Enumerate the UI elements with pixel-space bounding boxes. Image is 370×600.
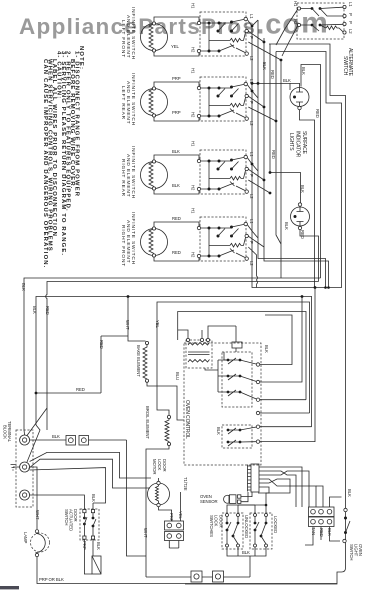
wire (157, 336, 169, 415)
junction (280, 59, 283, 62)
bus vertical C (264, 38, 329, 288)
svg-text:RED: RED (76, 387, 85, 392)
wire (180, 492, 182, 521)
svg-text:RED: RED (172, 216, 181, 221)
svg-text:PRP: PRP (172, 76, 181, 81)
wire T2 diagonal 2 (29, 459, 151, 488)
junction (251, 25, 254, 28)
surface indicator light 2 (291, 203, 319, 282)
svg-text:H1: H1 (191, 68, 196, 74)
connector square (79, 436, 89, 446)
terminal (186, 338, 189, 341)
svg-text:BLK: BLK (301, 67, 306, 75)
wire (158, 478, 160, 481)
wire (240, 427, 258, 430)
ring (20, 435, 30, 445)
wire (265, 505, 267, 513)
wire (255, 517, 266, 545)
svg-text:TAN: TAN (311, 527, 316, 535)
svg-text:BLK: BLK (283, 78, 291, 83)
wire (260, 288, 315, 442)
crossover wires (259, 467, 302, 507)
svg-text:YEL: YEL (155, 320, 160, 329)
terminal pad (238, 495, 241, 498)
svg-text:L2: L2 (249, 261, 254, 266)
wire (251, 492, 253, 497)
svg-text:LAMP: LAMP (23, 532, 28, 544)
svg-text:L1: L1 (249, 219, 254, 224)
junction (251, 90, 254, 93)
bus vertical D (270, 44, 301, 203)
alternate switch labels (293, 1, 353, 77)
svg-text:BLK: BLK (96, 542, 101, 550)
terminal (256, 411, 259, 414)
svg-text:RED: RED (45, 306, 50, 315)
infinite switch group 4 (right front) (141, 217, 249, 261)
infinite switch group 1 (left front) (141, 12, 249, 56)
junction (301, 295, 304, 298)
svg-text:P: P (249, 36, 254, 39)
junction (254, 522, 257, 525)
door lock motor winding (156, 483, 159, 505)
bottom-left dark mark (0, 586, 19, 589)
svg-text:P: P (249, 101, 254, 104)
wire (146, 576, 250, 578)
svg-text:MOTOR: MOTOR (152, 459, 157, 474)
svg-text:BLK: BLK (347, 489, 352, 497)
junction (127, 295, 130, 298)
wire (297, 207, 304, 226)
terminal (35, 530, 38, 533)
junction (251, 82, 254, 85)
svg-text:L2: L2 (348, 29, 353, 34)
terminal (256, 380, 259, 383)
wire (240, 441, 258, 443)
relay box lower (216, 425, 258, 448)
svg-text:H1: H1 (191, 141, 196, 147)
junction (227, 359, 230, 362)
wire (247, 225, 264, 288)
connector rows (165, 521, 184, 530)
terminal (343, 22, 346, 25)
junction (269, 171, 272, 174)
transformer core (188, 352, 210, 355)
bus vertical E (276, 52, 281, 245)
svg-text:RED: RED (271, 150, 276, 159)
svg-text:WHT: WHT (143, 528, 148, 538)
lamp (31, 533, 50, 552)
surface indicator light 1 (251, 65, 321, 288)
infinite switch group 2 (left rear) (141, 77, 249, 121)
wire (146, 446, 169, 577)
svg-text:L1: L1 (249, 14, 254, 19)
transformer secondary coil (188, 360, 210, 363)
junction (35, 392, 38, 395)
svg-text:P: P (249, 174, 254, 177)
svg-text:SURFACE: SURFACE (301, 131, 307, 155)
junction (227, 441, 230, 444)
svg-text:LEFT REAR: LEFT REAR (120, 86, 126, 120)
bake element (145, 341, 148, 344)
wire (260, 426, 312, 428)
wire T2 diagonal (30, 452, 151, 478)
terminal (343, 5, 346, 8)
pin labels for switch groups (191, 3, 255, 266)
svg-text:SENSOR: SENSOR (200, 499, 218, 504)
dashed box (222, 352, 252, 407)
wire (227, 479, 290, 513)
svg-text:L2: L2 (249, 121, 254, 126)
svg-text:H2: H2 (191, 47, 196, 53)
junction (314, 286, 317, 289)
svg-text:LOCKED: LOCKED (273, 516, 278, 533)
connector square (309, 507, 335, 517)
svg-text:PRP: PRP (82, 541, 87, 550)
staircase wires to buses (260, 315, 292, 365)
wire (346, 521, 351, 533)
junction (293, 96, 296, 99)
terminal (35, 553, 38, 556)
WHT drop (128, 297, 146, 342)
junction (227, 391, 230, 394)
broil element (167, 415, 170, 418)
wire (316, 486, 323, 507)
terminal (157, 503, 160, 506)
wire (84, 539, 93, 556)
terminal block (16, 430, 33, 507)
terminal (297, 23, 300, 26)
svg-text:LIGHTS: LIGHTS (288, 133, 294, 151)
connector square (191, 571, 202, 582)
wire (178, 326, 236, 338)
svg-text:PRP OR BLK: PRP OR BLK (39, 577, 64, 582)
wire (224, 326, 236, 360)
junction (257, 82, 260, 85)
svg-text:BLK: BLK (172, 183, 180, 188)
terminal pad (83, 536, 86, 539)
alternate switch resistor (326, 26, 343, 32)
svg-text:H1: H1 (191, 3, 196, 9)
bus vertical A (252, 26, 342, 288)
terminal (343, 539, 346, 542)
junction (275, 120, 278, 123)
terminal (200, 338, 203, 341)
connector square (165, 532, 184, 541)
ring (290, 88, 309, 107)
junction (311, 24, 314, 27)
svg-text:BLK: BLK (262, 62, 267, 70)
wire (320, 7, 343, 25)
svg-text:BLK: BLK (21, 283, 26, 291)
svg-text:BLK: BLK (91, 494, 96, 502)
svg-text:L1: L1 (348, 2, 353, 7)
bus vertical B (258, 20, 326, 288)
connector square (309, 517, 335, 527)
connector square (230, 495, 237, 504)
bottoms (227, 547, 266, 577)
diagonals from switch terminals to buses (247, 20, 281, 60)
trunk BLK 2 (36, 297, 312, 427)
wire (37, 557, 337, 584)
junction (227, 429, 230, 432)
oven light switch (344, 508, 347, 511)
wire (205, 368, 218, 370)
wire (228, 440, 240, 446)
junction (254, 529, 257, 532)
svg-text:RIGHT FRONT: RIGHT FRONT (120, 225, 126, 267)
svg-text:RED: RED (315, 109, 320, 118)
svg-text:SWITCH: SWITCH (64, 509, 69, 525)
terminal (343, 14, 346, 17)
svg-text:P: P (348, 13, 353, 16)
ring (167, 534, 172, 539)
svg-text:BLK: BLK (264, 345, 269, 353)
infinite switch group 3 (right rear) (141, 150, 249, 194)
wire (259, 471, 296, 507)
WHT to lamp (30, 467, 37, 529)
wire (252, 83, 300, 90)
P1 connector (251, 464, 259, 492)
svg-text:RED: RED (172, 250, 181, 255)
switch arms box2 (254, 514, 257, 517)
wire (259, 479, 316, 507)
dashed box (222, 513, 243, 549)
terminal (145, 379, 148, 382)
junction (226, 529, 229, 532)
control dashed box (184, 343, 261, 465)
ring (148, 483, 170, 505)
group labels (120, 7, 136, 267)
terminal (167, 442, 170, 445)
svg-text:WHT: WHT (35, 510, 40, 520)
svg-text:BLU: BLU (175, 372, 180, 380)
wire (228, 374, 240, 380)
svg-text:BLK: BLK (216, 427, 221, 435)
wire T3 to door switch (30, 495, 85, 509)
dashed box (250, 513, 272, 549)
dashed box (186, 340, 212, 368)
junction (344, 517, 347, 520)
svg-text:SWITCH: SWITCH (342, 56, 348, 76)
svg-text:P: P (348, 21, 353, 24)
svg-text:BLK: BLK (242, 550, 250, 555)
wire (247, 85, 276, 121)
wire (240, 376, 258, 382)
wire (241, 492, 252, 502)
trunk line 5 (178, 312, 306, 400)
wire (312, 9, 343, 32)
wire vertical drop (127, 440, 147, 556)
wire colour labels, horizontal (171, 44, 181, 255)
terminal (206, 338, 209, 341)
wire (169, 541, 179, 549)
bake element resistor zigzag (143, 345, 147, 379)
terminal (297, 7, 300, 10)
svg-text:T1/T2E: T1/T2E (183, 477, 188, 491)
ring (20, 462, 30, 472)
junction (251, 163, 254, 166)
wire (248, 466, 252, 490)
svg-text:H2: H2 (191, 252, 196, 258)
wire (300, 230, 319, 282)
junction (92, 517, 95, 520)
svg-text:P: P (249, 241, 254, 244)
bake bottom to BLU (147, 382, 184, 420)
svg-text:PRP: PRP (172, 110, 181, 115)
wire (330, 497, 342, 507)
wire (305, 527, 340, 546)
connector box below (92, 556, 101, 574)
switch arms box1 (226, 514, 229, 517)
junction (227, 375, 230, 378)
wire BLK rail to right (89, 439, 127, 441)
alternate switch box (276, 3, 346, 56)
ring (20, 490, 30, 500)
svg-text:WHT: WHT (125, 320, 130, 330)
RED branch (36, 336, 101, 393)
wire (247, 465, 249, 492)
trunk RED bus (46, 282, 319, 431)
svg-text:L2: L2 (249, 194, 254, 199)
diagonals to buses (24, 408, 47, 462)
terminal (254, 544, 257, 547)
wires from alt switch to buses (276, 10, 298, 57)
terminal (256, 425, 259, 428)
wire (238, 505, 255, 513)
svg-text:H1: H1 (293, 1, 298, 7)
svg-text:RED: RED (270, 70, 275, 79)
wire T2 rail 3 (30, 468, 106, 503)
BLK wire to fuses (30, 439, 66, 441)
wire (228, 428, 240, 434)
wire (228, 358, 240, 364)
svg-text:YEL: YEL (171, 44, 180, 49)
relay box upper (205, 352, 258, 407)
junction (327, 286, 330, 289)
svg-text:BLK: BLK (52, 434, 60, 439)
transformer (178, 326, 236, 368)
connector square (66, 436, 76, 446)
terminal pad (91, 536, 94, 539)
terminal pad (91, 510, 94, 513)
svg-text:OVEN CONTROL: OVEN CONTROL (184, 400, 190, 439)
door actuated switch (80, 509, 99, 540)
svg-text:BAKE ELEMENT: BAKE ELEMENT (136, 345, 141, 377)
junction (324, 286, 327, 289)
junction (344, 531, 347, 534)
ring (291, 207, 310, 226)
terminal (298, 203, 301, 206)
wire (260, 297, 302, 383)
ring (167, 523, 172, 528)
broil element resistor zigzag (165, 419, 169, 443)
terminal (226, 544, 229, 547)
junction (311, 7, 314, 10)
oven sensor bulb (224, 495, 229, 503)
wire (260, 412, 310, 414)
terminal (256, 398, 259, 401)
svg-text:RED: RED (319, 528, 324, 537)
connector square (213, 571, 224, 582)
lamp filament arc (36, 534, 46, 553)
wire (240, 360, 258, 365)
wire (92, 503, 94, 509)
wire (227, 517, 238, 545)
svg-text:BLOCK: BLOCK (3, 425, 8, 439)
svg-text:H2: H2 (191, 112, 196, 118)
junction (226, 522, 229, 525)
ring (311, 519, 316, 524)
wire (218, 360, 222, 392)
svg-text:PRP: PRP (169, 513, 174, 522)
trunk BLK bus (24, 278, 321, 430)
svg-text:INDICATOR: INDICATOR (295, 131, 301, 158)
trunk YEL (157, 302, 310, 413)
dashed box (297, 3, 344, 39)
IL1 top riser to trunk (301, 65, 321, 279)
junction (265, 504, 268, 507)
wire (296, 88, 303, 107)
wire (301, 9, 313, 26)
ring (311, 509, 316, 514)
wire (240, 392, 258, 400)
svg-text:RED: RED (300, 230, 305, 239)
svg-text:L2: L2 (249, 56, 254, 61)
wire (258, 487, 269, 493)
IL1 bottom wire (300, 110, 315, 288)
wire (228, 390, 240, 396)
svg-text:SWITCHES: SWITCHES (209, 515, 214, 537)
wire (247, 158, 270, 193)
svg-text:CAN CAUSE IMPROPER AND DANGERO: CAN CAUSE IMPROPER AND DANGEROUS OPERATI… (42, 59, 48, 269)
terminal (157, 481, 160, 484)
svg-text:BLK: BLK (172, 149, 180, 154)
bus vertical F (280, 60, 282, 278)
svg-text:H1: H1 (191, 208, 196, 214)
indicator labels (262, 62, 320, 239)
right border from alternate area (185, 44, 346, 584)
control top connector (232, 342, 242, 348)
svg-text:L1: L1 (249, 152, 254, 157)
wire (260, 399, 306, 401)
svg-text:BROIL ELEMENT: BROIL ELEMENT (145, 406, 150, 439)
wire (84, 513, 96, 536)
svg-text:H2: H2 (293, 19, 298, 25)
wire (101, 335, 128, 337)
control terminals right edge (256, 363, 259, 366)
svg-text:LEFT FRONT: LEFT FRONT (120, 20, 126, 58)
wire (159, 507, 172, 521)
terminal (256, 440, 259, 443)
svg-text:BLK: BLK (32, 306, 37, 314)
terminal pad (83, 510, 86, 513)
wire (222, 360, 228, 392)
svg-text:BLK: BLK (284, 222, 289, 230)
wire (84, 556, 101, 574)
svg-text:RED: RED (99, 340, 104, 349)
svg-text:RIGHT REAR: RIGHT REAR (120, 159, 126, 197)
svg-text:UNLOCKED: UNLOCKED (244, 515, 249, 538)
svg-text:BLK: BLK (300, 185, 305, 193)
dashed box (222, 425, 252, 448)
terminal (298, 106, 301, 109)
terminal (343, 31, 346, 34)
junction (294, 215, 297, 218)
wire (259, 471, 309, 507)
junction (83, 517, 86, 520)
svg-text:SWITCH: SWITCH (349, 544, 354, 560)
svg-text:H2: H2 (191, 185, 196, 191)
